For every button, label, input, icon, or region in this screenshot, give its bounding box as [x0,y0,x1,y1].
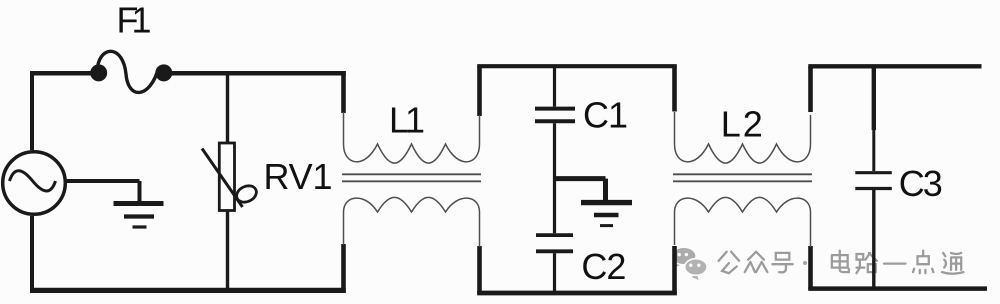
svg-text:L1: L1 [389,99,425,140]
svg-text:RV1: RV1 [264,156,333,197]
svg-text:F1: F1 [117,0,152,40]
svg-text:L2: L2 [721,104,763,145]
svg-text:C2: C2 [581,246,626,287]
svg-text:C1: C1 [583,95,628,136]
svg-text:C3: C3 [899,163,943,204]
